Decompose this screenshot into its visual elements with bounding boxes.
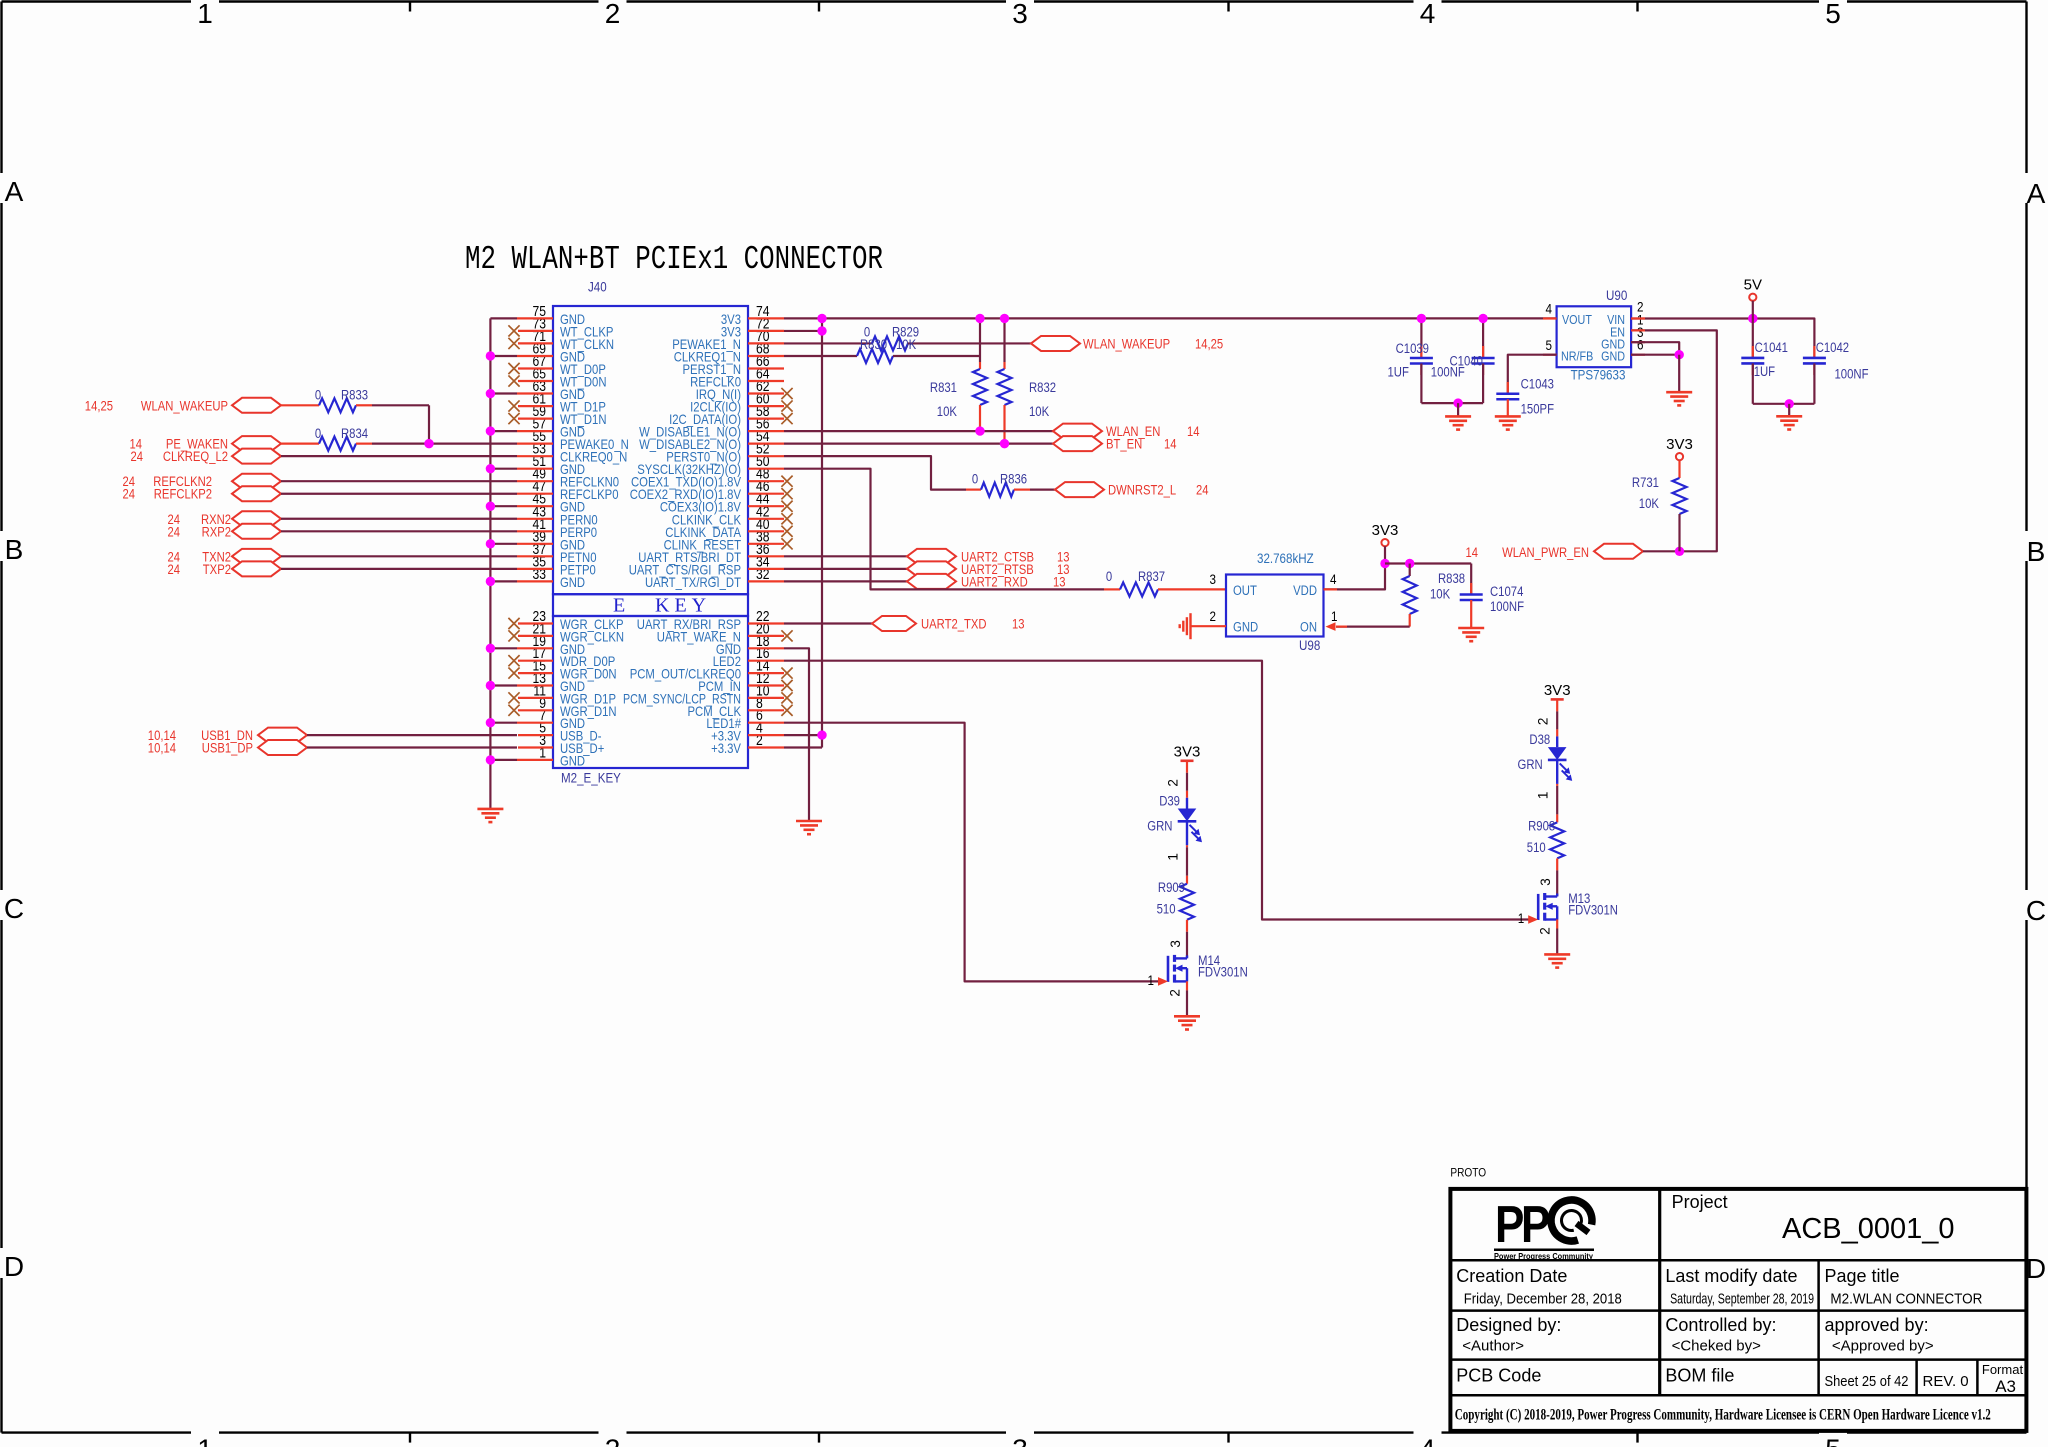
svg-text:KEY: KEY [655,595,711,617]
wire to WLAN_WAKEUP [908,342,1031,344]
wire LED2 to M13 gate [784,661,1529,920]
junction [486,502,495,511]
net WLAN_PWR_EN [1466,544,1644,560]
ground [1495,416,1521,429]
resistor R838 [1403,564,1465,627]
wire [1384,546,1386,563]
svg-text:Controlled by:: Controlled by: [1665,1315,1776,1335]
wire [784,580,907,582]
capacitor C1043 [1496,355,1556,417]
junction [1748,314,1757,323]
svg-text:Creation Date: Creation Date [1456,1266,1567,1286]
svg-text:2: 2 [1168,989,1183,997]
GND bus wire (left) [489,318,491,809]
svg-text:24: 24 [131,449,144,464]
wire [784,355,857,357]
svg-text:0: 0 [315,426,321,441]
svg-text:UART_TX/RGI_DT: UART_TX/RGI_DT [645,575,741,590]
svg-text:2: 2 [1536,718,1551,726]
svg-text:14: 14 [1466,545,1479,560]
junction [1417,314,1426,323]
svg-text:ACB_0001_0: ACB_0001_0 [1782,1213,1955,1245]
svg-text:C: C [4,893,24,924]
wire [1457,403,1459,416]
svg-text:A: A [2027,178,2046,209]
svg-text:PROTO: PROTO [1450,1165,1486,1179]
svg-text:D: D [2026,1253,2046,1284]
svg-text:2: 2 [1166,779,1181,787]
junction [486,644,495,653]
ground [1458,628,1484,641]
svg-text:R830: R830 [860,337,887,352]
svg-text:TXP2: TXP2 [203,562,231,577]
svg-text:BOM file: BOM file [1665,1366,1734,1386]
svg-text:0: 0 [315,388,321,403]
net WLAN_WAKEUP (right) [1031,336,1223,352]
wire [1158,588,1226,590]
svg-text:C1041: C1041 [1755,340,1788,355]
ground [1174,1016,1200,1029]
wire [1556,858,1558,870]
svg-text:WLAN_PWR_EN: WLAN_PWR_EN [1502,545,1589,560]
wire LED1# to M14 gate [784,723,1159,982]
capacitor C1041 [1741,319,1788,404]
svg-text:DWNRST2_L: DWNRST2_L [1108,483,1176,498]
svg-text:Last modify date: Last modify date [1665,1266,1797,1286]
wire W_DISABLE1_N to WLAN_EN [784,430,1053,432]
svg-text:2: 2 [605,1434,621,1447]
svg-text:14: 14 [1164,437,1177,452]
wire U98 GND [1191,625,1227,627]
wire pin 2 +3.3V [784,746,822,748]
svg-text:PP: PP [1495,1196,1549,1254]
svg-text:<Author>: <Author> [1462,1337,1524,1354]
svg-text:GND: GND [1601,348,1625,363]
svg-text:U98: U98 [1299,638,1321,653]
svg-text:10K: 10K [1430,587,1450,602]
svg-text:4: 4 [1420,0,1436,29]
power 3V3 [1666,436,1693,460]
svg-text:4: 4 [1330,571,1337,587]
svg-text:R909: R909 [1158,880,1185,895]
J40 right pin stubs (top) [748,318,784,581]
svg-text:RXP2: RXP2 [202,524,231,539]
svg-text:Friday, December 28, 2018: Friday, December 28, 2018 [1464,1291,1622,1308]
svg-text:TPS79633: TPS79633 [1571,368,1626,383]
ground [796,821,822,834]
junction [486,681,495,690]
svg-text:UART2_RXD: UART2_RXD [961,574,1028,589]
svg-text:5V: 5V [1744,277,1762,294]
svg-text:Saturday, September 28, 2019: Saturday, September 28, 2019 [1670,1291,1814,1308]
wire WLAN_PWR_EN to U90 EN [1631,330,1717,551]
svg-text:150PF: 150PF [1521,401,1554,416]
J40 pin names [560,312,742,769]
svg-text:GND: GND [560,575,585,590]
svg-text:GND: GND [560,753,585,768]
net RXP2 [168,524,282,540]
wire [356,443,372,445]
svg-text:C1042: C1042 [1816,340,1849,355]
svg-text:4: 4 [1546,301,1553,317]
power 3V3 [1174,743,1201,761]
capacitor C1042 [1803,340,1869,404]
svg-text:24: 24 [168,524,181,539]
net REFCLKN2 [123,474,282,490]
svg-text:Power Progress Community: Power Progress Community [1494,1251,1593,1261]
junction [424,439,433,448]
svg-text:1UF: 1UF [1754,364,1775,379]
svg-text:1: 1 [1536,792,1551,800]
resistor R831 [930,318,987,431]
svg-text:CLKREQ_L2: CLKREQ_L2 [163,449,228,464]
no-connect marks left bottom [508,618,519,629]
wire [281,530,517,532]
svg-text:FDV301N: FDV301N [1568,903,1618,918]
svg-text:VDD: VDD [1293,583,1317,598]
svg-text:14: 14 [1187,424,1200,439]
svg-text:+3.3V: +3.3V [711,741,742,756]
ground [477,809,503,822]
wire [307,746,517,748]
J40 right pin stubs (bottom) [748,624,784,748]
wire [1556,699,1558,711]
net CLKREQ_L2 [131,449,282,465]
svg-text:3V3: 3V3 [1174,743,1201,760]
junction [1405,559,1414,568]
wire W_DISABLE2_N to BT_EN [784,443,1053,445]
svg-text:<Cheked by>: <Cheked by> [1672,1337,1761,1354]
wire PERST0_N [784,456,966,489]
wire [281,493,517,495]
wire pin18 GND [784,648,809,821]
power 3V3 [1544,682,1571,700]
junction [817,326,826,335]
svg-text:1: 1 [1148,972,1155,988]
wire [281,443,319,445]
wire [1556,920,1558,929]
junction [1000,439,1009,448]
capacitor C1074 [1460,564,1524,629]
svg-text:REV. 0: REV. 0 [1923,1373,1969,1390]
svg-text:GRN: GRN [1518,757,1543,772]
wire [1186,981,1188,990]
svg-text:1: 1 [1518,910,1525,926]
svg-text:4: 4 [1420,1434,1436,1447]
resistor R830 [857,337,916,363]
junction [1675,350,1684,359]
ground [1180,613,1191,639]
svg-text:R837: R837 [1138,569,1165,584]
svg-text:FDV301N: FDV301N [1198,964,1248,979]
wire [784,342,872,344]
net UART2_TXD [872,616,1025,632]
junction [486,755,495,764]
J40 pin numbers [533,304,770,762]
junction [486,464,495,473]
ground [1544,954,1570,967]
svg-text:GRN: GRN [1147,818,1172,833]
wire [893,355,980,357]
no-connect marks left top [508,325,519,336]
svg-text:1: 1 [1331,608,1338,624]
svg-text:3V3: 3V3 [1544,682,1571,699]
svg-text:B: B [5,534,24,565]
junction [1785,399,1794,408]
svg-text:510: 510 [1527,840,1546,855]
wire U98 ON [1336,625,1410,627]
ground [1666,392,1692,405]
wire U98 VDD to 3V3 [1324,564,1386,590]
svg-text:3: 3 [1538,878,1553,886]
svg-text:14,25: 14,25 [85,398,113,413]
junction [486,351,495,360]
svg-text:14,25: 14,25 [1195,336,1223,351]
svg-text:510: 510 [1157,902,1176,917]
net BT_EN [1053,436,1177,452]
svg-text:3: 3 [1012,0,1028,29]
svg-text:C: C [2026,895,2046,926]
svg-text:PCB Code: PCB Code [1456,1366,1541,1386]
wire cap ground bar [1753,403,1815,405]
net DWNRST2_L [1055,482,1209,498]
wire [356,404,372,406]
wire pin 72 to rail [784,330,822,332]
wire [1186,845,1188,847]
svg-text:ON: ON [1300,620,1317,635]
title block text [1456,1192,2023,1396]
svg-text:2: 2 [1538,927,1553,935]
svg-text:24: 24 [123,487,136,502]
regulator U90 TPS79633 [1546,288,1644,383]
net WLAN_EN [1053,424,1200,440]
transistor M13 FDV301N [1528,891,1618,924]
net PE_WAKEN [130,436,282,452]
ground [1445,416,1471,429]
junction [486,389,495,398]
svg-text:3: 3 [1012,1434,1028,1447]
junction [975,426,984,435]
resistor R908 [1527,819,1564,859]
svg-text:5: 5 [1825,0,1841,29]
net TXN2 [168,549,282,565]
junction [817,730,826,739]
svg-text:R832: R832 [1029,380,1056,395]
resistor R832 [998,318,1057,443]
svg-text:100NF: 100NF [1431,365,1465,380]
svg-text:C1043: C1043 [1521,376,1554,391]
svg-text:10K: 10K [1639,496,1659,511]
svg-text:M2.WLAN CONNECTOR: M2.WLAN CONNECTOR [1830,1291,1982,1308]
svg-text:OUT: OUT [1233,583,1257,598]
net UART2_RTSB [907,561,1070,577]
title block [1450,1165,2026,1431]
wire [784,622,872,624]
svg-text:10K: 10K [937,404,957,419]
wire [281,568,517,570]
svg-text:REFCLKP2: REFCLKP2 [154,487,212,502]
svg-text:Sheet 25 of 42: Sheet 25 of 42 [1825,1373,1909,1390]
svg-text:2: 2 [1210,608,1217,624]
svg-text:D39: D39 [1159,794,1180,809]
net UART2_CTSB [907,549,1070,565]
svg-text:5: 5 [1825,1434,1841,1447]
wire 3V3 rail from pin 74 [784,317,1557,319]
svg-text:R908: R908 [1528,819,1555,834]
svg-text:Designed by:: Designed by: [1456,1315,1561,1335]
svg-text:R731: R731 [1632,475,1659,490]
svg-text:10,14: 10,14 [148,741,177,756]
wire [281,480,517,482]
junction [975,314,984,323]
net USB1_DN [148,728,307,744]
power 5V [1744,277,1762,301]
junction [486,539,495,548]
resistor R836 [972,472,1027,497]
wire [1186,761,1188,773]
wire [1752,301,1754,319]
svg-text:D38: D38 [1529,732,1550,747]
svg-text:2: 2 [605,0,621,29]
svg-text:0: 0 [972,472,978,487]
PPC logo [1494,1195,1597,1261]
J40 left pin wires (bottom) [490,624,553,760]
net USB1_DP [148,740,307,756]
wire [1678,355,1680,393]
resistor R909 [1157,880,1194,920]
capacitor C1039 [1388,319,1433,404]
svg-text:NR/FB: NR/FB [1561,348,1593,363]
wire pin 4 +3.3V [784,734,822,736]
svg-text:6: 6 [1637,337,1644,353]
svg-text:C1074: C1074 [1490,584,1524,599]
wire [281,518,517,520]
svg-text:J40: J40 [588,280,607,295]
resistor R731 [1632,460,1687,551]
LED D38 [1518,732,1573,784]
svg-text:3: 3 [1210,571,1217,587]
wire SYSCLK to R837 [784,469,1104,590]
svg-text:E: E [613,595,625,617]
net UART2_RXD [907,574,1066,590]
wire U90 GND pin3 [1631,342,1679,355]
svg-text:USB1_DP: USB1_DP [202,741,253,756]
wire [784,555,907,557]
svg-text:R838: R838 [1438,571,1465,586]
svg-text:C1039: C1039 [1396,341,1429,356]
resistor R834 [315,426,369,451]
junction [1380,559,1389,568]
wire [281,555,517,557]
svg-text:32.768kHZ: 32.768kHZ [1257,551,1314,566]
svg-text:<Approved by>: <Approved by> [1832,1337,1934,1354]
svg-text:1UF: 1UF [1388,365,1409,380]
wire [281,455,517,457]
svg-text:5: 5 [1546,337,1553,353]
resistor R833 [315,388,368,413]
svg-text:R831: R831 [930,380,957,395]
net TXP2 [168,561,282,577]
net REFCLKP2 [123,486,282,502]
svg-text:U90: U90 [1606,288,1628,303]
wire [1788,404,1790,417]
svg-text:WLAN_WAKEUP: WLAN_WAKEUP [1083,336,1170,351]
svg-text:UART2_TXD: UART2_TXD [921,617,987,632]
svg-text:Project: Project [1672,1192,1728,1212]
resistor R837 [1106,569,1165,596]
net WLAN_WAKEUP (left) [85,398,281,414]
resistor R829 [864,325,919,351]
svg-text:0: 0 [1106,569,1112,584]
wire [784,568,907,570]
svg-text:D: D [4,1251,24,1282]
svg-text:A3: A3 [1995,1377,2016,1396]
net RXN2 [168,511,282,527]
transistor M14 FDV301N [1158,953,1248,986]
svg-text:1: 1 [197,1434,213,1447]
LED D39 [1147,794,1202,846]
wire VIN to 5V and caps [1631,319,1814,358]
svg-text:3V3: 3V3 [1372,522,1399,539]
no-connect marks right top [781,388,792,399]
wire [281,404,319,406]
J40 left pin wires (top) [490,318,553,581]
junction [1000,314,1009,323]
wire [1556,784,1558,786]
svg-text:1: 1 [1166,853,1181,861]
power 3V3 [1372,522,1399,546]
svg-text:A: A [5,176,24,207]
wire [1186,920,1188,932]
svg-text:GND: GND [1233,620,1258,635]
svg-text:M2_E_KEY: M2_E_KEY [561,771,621,786]
oscillator U98 [1210,551,1338,653]
svg-text:24: 24 [168,562,181,577]
junction [1675,547,1684,556]
svg-text:Format: Format [1982,1362,2024,1377]
no-connect marks right bottom [781,630,792,641]
svg-text:R834: R834 [341,426,369,441]
svg-text:Page title: Page title [1825,1266,1900,1286]
wire 3V3 to R838/C1074 [1385,562,1471,564]
svg-text:1: 1 [197,0,213,29]
wire 3V3 drop to +3.3V pins [821,318,823,747]
wire cap ground bar [1421,402,1483,404]
svg-text:B: B [2027,536,2046,567]
svg-text:10K: 10K [896,337,916,352]
wire U90 GND pin6 [1631,354,1679,356]
wire [1014,489,1030,491]
svg-text:100NF: 100NF [1490,599,1524,614]
svg-text:100NF: 100NF [1835,367,1869,382]
junction [486,718,495,727]
svg-text:approved by:: approved by: [1825,1315,1929,1335]
junction [1453,398,1462,407]
junction [817,314,826,323]
capacitor C1040 [1431,319,1495,404]
svg-text:R833: R833 [341,388,368,403]
svg-text:BT_EN: BT_EN [1106,437,1142,452]
svg-text:M2 WLAN+BT PCIEx1 CONNECTOR: M2 WLAN+BT PCIEx1 CONNECTOR [465,241,883,278]
svg-text:24: 24 [1196,483,1209,498]
svg-text:13: 13 [1053,574,1066,589]
junction [486,426,495,435]
svg-text:Copyright (C) 2018-2019, Power: Copyright (C) 2018-2019, Power Progress … [1455,1407,1991,1424]
svg-text:10K: 10K [1029,404,1049,419]
wire [307,734,517,736]
svg-text:3V3: 3V3 [1666,436,1693,453]
svg-text:13: 13 [1012,617,1025,632]
